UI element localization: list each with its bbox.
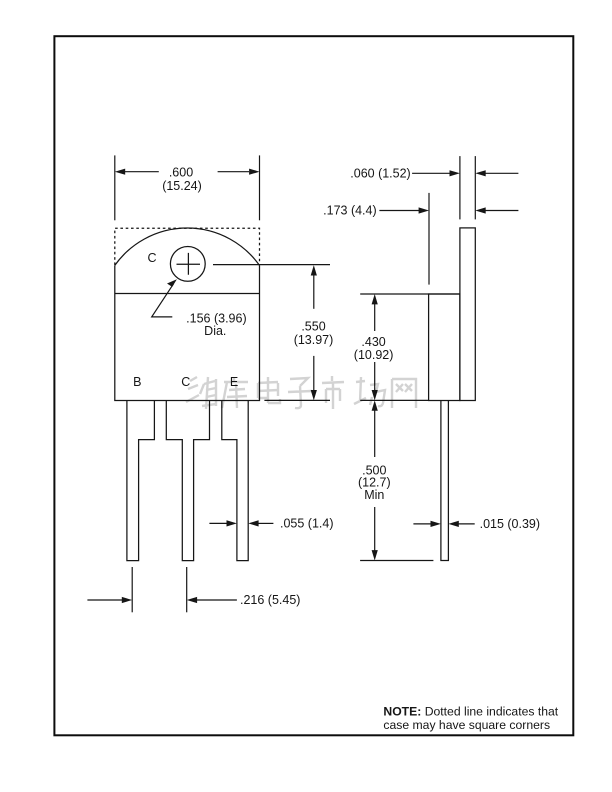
svg-text:.055 (1.4): .055 (1.4) (280, 517, 334, 531)
svg-text:(10.92): (10.92) (354, 348, 394, 362)
svg-text:B: B (133, 375, 141, 389)
leader line from hole to .550 dimension (213, 264, 330, 266)
dimension .173 (4.4) (379, 193, 518, 285)
lead C outline (166, 401, 209, 561)
svg-text:C: C (147, 251, 156, 265)
side view: case rear (tall thin) (429, 228, 476, 561)
dimension .600 (15.24) (115, 155, 260, 220)
dimension .060 (1.52) (412, 156, 518, 219)
svg-text:C: C (181, 375, 190, 389)
dimension .550 (13.97) (264, 275, 330, 400)
note text (383, 704, 558, 732)
dimension .430 (10.92) (360, 294, 460, 400)
svg-text:case may have square corners: case may have square corners (383, 718, 550, 732)
svg-text:Dia.: Dia. (204, 324, 226, 338)
svg-text:.060 (1.52): .060 (1.52) (350, 167, 410, 181)
page border frame (54, 36, 573, 735)
svg-text:.015 (0.39): .015 (0.39) (480, 517, 540, 531)
dimension .015 (0.39) (413, 523, 474, 525)
svg-text:E: E (230, 375, 238, 389)
side view: case front block (429, 294, 460, 401)
terminal labels B C E (133, 375, 238, 389)
front view: body outline (115, 228, 260, 400)
char 场 (354, 377, 385, 406)
hole cross hairs (177, 253, 201, 275)
svg-text:.216 (5.45): .216 (5.45) (240, 593, 300, 607)
lead B outline (127, 401, 154, 561)
svg-text:.550: .550 (301, 320, 325, 334)
char 网 (392, 379, 416, 408)
watermark 维库电子市场网 (186, 376, 416, 409)
front view: case step line (115, 293, 260, 295)
char 库 (222, 377, 248, 408)
side view: lead (441, 401, 449, 561)
char 维 (186, 377, 216, 409)
svg-text:(13.97): (13.97) (294, 333, 334, 347)
dimension .500 (12.7) Min (360, 411, 433, 561)
svg-text:(15.24): (15.24) (162, 179, 202, 193)
dimension .216 (5.45) (87, 567, 237, 612)
mounting hole (170, 247, 205, 282)
front view: dashed square-corner line (115, 228, 260, 265)
char 子 (288, 378, 312, 408)
svg-text:.600: .600 (169, 165, 193, 179)
svg-text:NOTE: Dotted line indicates th: NOTE: Dotted line indicates that (383, 704, 558, 718)
lead E outline (222, 401, 248, 561)
leader arrow .156 dia (152, 284, 174, 317)
char 市 (322, 376, 344, 409)
char 电 (258, 377, 280, 403)
svg-text:Min: Min (364, 488, 384, 502)
dimension .055 (1.4) (209, 522, 273, 524)
svg-text:.173 (4.4): .173 (4.4) (323, 204, 377, 218)
